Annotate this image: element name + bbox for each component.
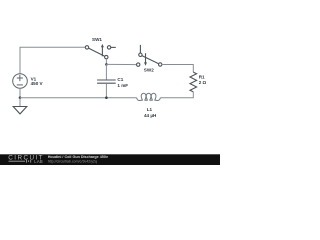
label V1 450 V — [31, 77, 44, 87]
svg-text:450 V: 450 V — [31, 81, 44, 86]
node bottom junction — [105, 96, 108, 99]
voltage source V1 — [13, 74, 28, 89]
resistor R1 — [190, 72, 197, 92]
wire C1 bottom lead — [105, 83, 107, 97]
label C1 1 mF — [117, 77, 128, 88]
label L1 44 uH — [144, 107, 157, 118]
wire ground stub — [19, 98, 21, 107]
wire top rail from V1 to SW1 — [20, 47, 86, 74]
label SW2 — [144, 68, 154, 73]
svg-text:SW2: SW2 — [144, 68, 154, 73]
node middle junction — [105, 63, 108, 66]
svg-text:L1: L1 — [147, 107, 153, 112]
label SW1 — [92, 37, 102, 42]
switch SW1 — [85, 44, 116, 59]
wire C1 top lead — [105, 64, 107, 80]
wire SW2 to R1 top — [162, 65, 193, 73]
wire SW1 common down to middle node — [105, 59, 107, 65]
svg-text:R1: R1 — [199, 74, 205, 79]
capacitor C1 — [97, 80, 116, 83]
svg-text:44 µH: 44 µH — [144, 113, 157, 118]
ground — [13, 107, 27, 114]
wire bottom rail to L1 — [20, 97, 137, 99]
wire middle rail to SW2 — [106, 63, 136, 65]
wire R1 bottom to bottom rail — [160, 92, 193, 98]
label R1 2 ohm — [199, 74, 207, 85]
inductor L1 — [137, 93, 161, 100]
footer bar — [0, 154, 220, 165]
footer logo CIRCUIT LAB — [8, 154, 44, 164]
footer title text — [48, 155, 109, 163]
svg-text:C1: C1 — [117, 77, 123, 82]
wire V1 bottom lead — [19, 88, 21, 98]
svg-text:2 Ω: 2 Ω — [199, 80, 207, 85]
svg-text:SW1: SW1 — [92, 37, 102, 42]
svg-text:LAB: LAB — [34, 159, 43, 164]
node junction at ground — [19, 96, 22, 99]
switch SW2 — [137, 45, 162, 66]
svg-text:http://circuitlab.com/c/3v42/y: http://circuitlab.com/c/3v42/y2q — [48, 159, 97, 163]
svg-text:1 mF: 1 mF — [117, 83, 128, 88]
